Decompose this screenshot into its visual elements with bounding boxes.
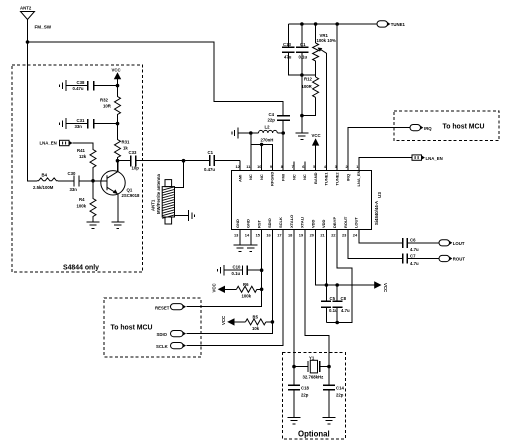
svg-text:DBYP: DBYP [332, 217, 337, 228]
region box: S4844 only [12, 65, 143, 272]
svg-text:RST: RST [256, 219, 261, 228]
capacitor C12 [296, 24, 309, 133]
wire pin 17 SCLK to connector [187, 230, 284, 346]
svg-text:Si4840/44-A: Si4840/44-A [374, 201, 379, 225]
svg-text:33n: 33n [75, 124, 83, 129]
wire pin 21 VDD [325, 230, 327, 286]
crystal Y1 [294, 355, 329, 379]
svg-text:TUNE1: TUNE1 [324, 172, 329, 186]
wire VR1 wiper to pin 4 TUNE1 [325, 53, 327, 170]
svg-text:VDD: VDD [321, 219, 326, 228]
svg-text:47u: 47u [284, 55, 292, 60]
ground (C14) [323, 418, 336, 424]
svg-text:C8: C8 [341, 296, 347, 301]
wire pin 14 GND [250, 230, 252, 246]
svg-text:ROUT: ROUT [453, 257, 466, 262]
node SDIO/R5 [271, 320, 275, 324]
svg-text:24: 24 [353, 233, 358, 238]
svg-text:C31: C31 [77, 118, 85, 123]
potentiometer VR1 [313, 24, 336, 77]
svg-text:15: 15 [256, 233, 261, 238]
svg-text:To host MCU: To host MCU [111, 325, 153, 332]
svg-text:MW/Ferrite antenna: MW/Ferrite antenna [156, 174, 161, 214]
ground (pin 14) [244, 245, 257, 251]
resistor R4 [77, 197, 97, 219]
capacitor C8 [332, 285, 350, 323]
power VCC (supply, right arrow) [374, 281, 388, 292]
svg-text:XTALI: XTALI [300, 217, 305, 228]
wire pin 24 LOUT to C6 [359, 230, 403, 243]
resistor R12 [302, 77, 319, 116]
svg-text:C18: C18 [301, 386, 309, 391]
capacitor C33 [118, 150, 210, 170]
svg-text:LNA_EN: LNA_EN [40, 140, 57, 145]
svg-text:GND: GND [246, 219, 251, 228]
node RFGND net [249, 131, 253, 135]
node tune rail / TUNE2 [335, 22, 339, 26]
ferrite bead B4 [33, 173, 74, 191]
wire pin 20 VDD to VCC rail [316, 230, 375, 286]
svg-text:14: 14 [245, 233, 250, 238]
svg-text:C30: C30 [68, 171, 76, 176]
resistor R32 [100, 95, 121, 117]
region box: Optional [283, 353, 346, 440]
region box: To host MCU (bottom) [104, 298, 201, 357]
node antenna tap [182, 159, 186, 163]
node caps return [335, 321, 339, 325]
svg-text:RESET: RESET [155, 305, 170, 310]
svg-text:0.47u: 0.47u [204, 167, 215, 172]
svg-text:FM_SW: FM_SW [35, 25, 52, 30]
svg-text:IRQ: IRQ [345, 174, 350, 181]
svg-text:NC: NC [302, 174, 307, 180]
capacitor C5 [321, 285, 338, 323]
connector TUNE1 [377, 21, 405, 27]
wire pin 13 GND [239, 230, 241, 246]
ground (antenna, right-pointing) [189, 210, 195, 221]
svg-text:22p: 22p [268, 118, 276, 123]
svg-text:10R: 10R [103, 104, 112, 109]
IC U1 Si4840/44-A body [232, 171, 383, 230]
connector SDIO [157, 331, 187, 338]
svg-text:VCC: VCC [383, 283, 388, 292]
svg-text:20: 20 [310, 233, 314, 238]
svg-text:Y1: Y1 [309, 355, 315, 360]
connector IRQ [410, 125, 432, 131]
connector RESET [155, 304, 186, 311]
wire R31 to collector [117, 158, 119, 173]
svg-text:SDIO: SDIO [267, 218, 272, 228]
svg-text:R12: R12 [304, 77, 312, 82]
svg-text:23: 23 [342, 233, 347, 238]
wire TUNE rail [289, 23, 377, 25]
connector ROUT [439, 255, 465, 261]
svg-text:C6: C6 [410, 238, 416, 243]
connector LOUT [439, 240, 465, 246]
svg-text:100k 10%: 100k 10% [317, 38, 337, 43]
svg-text:0.1u: 0.1u [329, 308, 338, 313]
connector LNA_EN (right) [412, 155, 443, 161]
IC bottom pin numbers [234, 233, 358, 238]
svg-text:To host MCU: To host MCU [443, 124, 485, 131]
ground (under R4) [87, 222, 100, 228]
svg-text:NC: NC [259, 174, 264, 180]
svg-text:4.7u: 4.7u [341, 308, 350, 313]
capacitor C30 [68, 171, 94, 192]
wire pin 19 XTALI to crystal [305, 230, 329, 367]
svg-text:L2: L2 [265, 125, 271, 130]
wire FM_SW to FMI [28, 42, 284, 116]
svg-text:C10: C10 [233, 265, 241, 270]
svg-text:LOUT: LOUT [354, 217, 359, 228]
svg-text:4.7u: 4.7u [410, 247, 419, 252]
node collector/C33 [116, 159, 120, 163]
svg-text:S4844 only: S4844 only [63, 265, 99, 272]
IC bottom pin names [235, 215, 359, 228]
ground (under Q1 emitter) [111, 222, 124, 228]
svg-text:SDIO: SDIO [157, 332, 168, 337]
svg-text:270nH: 270nH [261, 138, 274, 143]
wire antenna tap [175, 161, 184, 188]
wire C1 to pin 12 AMI [239, 161, 241, 171]
ground (tune network) [295, 133, 308, 139]
ground (pin 13) [234, 245, 247, 251]
resistor R5 [246, 314, 273, 331]
svg-text:SCLK: SCLK [278, 217, 283, 228]
wire ANT2 down to B4 [28, 42, 38, 181]
svg-text:C38: C38 [77, 80, 85, 85]
svg-text:ROUT: ROUT [343, 216, 348, 228]
svg-text:10: 10 [257, 164, 261, 169]
svg-text:R31: R31 [122, 140, 130, 145]
node base [91, 179, 95, 183]
svg-text:IRQ: IRQ [424, 126, 432, 131]
resistor R41 [77, 148, 96, 170]
inductor L2 270nH [259, 125, 284, 143]
svg-text:0.1u: 0.1u [299, 55, 308, 60]
node FM_SW junction [26, 40, 30, 44]
svg-text:C33: C33 [129, 150, 137, 155]
wire LNA_EN to host [359, 158, 412, 171]
wire pin 22 DBYP jog [326, 230, 352, 323]
svg-text:B4: B4 [42, 173, 48, 178]
svg-text:LNA_EN: LNA_EN [356, 170, 361, 186]
wire TUNE2 rail to pin 3 [336, 24, 338, 171]
svg-text:10p: 10p [132, 165, 140, 170]
svg-text:U3: U3 [377, 192, 382, 198]
power VCC (BAND pin) [312, 133, 321, 171]
svg-text:17: 17 [277, 233, 281, 238]
svg-text:33n: 33n [70, 187, 78, 192]
svg-text:BAND: BAND [313, 172, 318, 184]
svg-text:12k: 12k [79, 154, 87, 159]
svg-text:VCC: VCC [112, 68, 121, 73]
capacitor C38 [60, 80, 118, 91]
node R12 bottom return [300, 114, 304, 118]
svg-text:R4: R4 [79, 197, 85, 202]
connector SCLK [156, 343, 186, 350]
wire R41 to base node [92, 170, 94, 197]
power VCC (top left) [112, 68, 122, 95]
node VCC/C38 [116, 84, 120, 88]
svg-text:VCC: VCC [221, 316, 226, 325]
svg-text:TUNE2: TUNE2 [335, 172, 340, 186]
svg-text:22p: 22p [336, 393, 344, 398]
svg-text:NC: NC [291, 174, 296, 180]
capacitor C6 [403, 238, 439, 253]
svg-text:C13: C13 [283, 42, 291, 47]
node caps bottom [300, 73, 304, 77]
svg-text:C14: C14 [336, 386, 344, 391]
ground (C18) [288, 418, 301, 424]
wire R32 to R31 [117, 117, 119, 138]
svg-text:0.1u: 0.1u [232, 271, 241, 276]
svg-text:NC: NC [248, 174, 253, 180]
svg-text:0.47u: 0.47u [73, 86, 84, 91]
node RST/C10 [260, 268, 264, 272]
antenna ANT2 [20, 6, 35, 43]
svg-text:VCC: VCC [212, 283, 217, 292]
svg-text:R6: R6 [243, 282, 249, 287]
svg-text:100k: 100k [242, 293, 252, 298]
capacitor C4 [268, 112, 291, 133]
node RST/R6 [260, 288, 264, 292]
svg-text:C1: C1 [208, 150, 214, 155]
svg-text:4.7u: 4.7u [410, 261, 419, 266]
svg-text:2.5k/100M: 2.5k/100M [33, 185, 54, 190]
svg-text:AMI: AMI [237, 175, 242, 182]
IC top pin numbers [236, 164, 360, 169]
transistor Q1 [93, 161, 140, 222]
svg-text:VDD: VDD [310, 219, 315, 228]
svg-text:C1: C1 [300, 42, 306, 47]
svg-text:C5: C5 [330, 296, 336, 301]
svg-text:TUNE1: TUNE1 [391, 22, 406, 27]
antenna ANT1 MW/Ferrite antenna [151, 174, 189, 224]
svg-text:C4: C4 [269, 112, 275, 117]
svg-text:16: 16 [266, 233, 271, 238]
power VCC (R6 pull-up) [212, 283, 237, 293]
wire pin 23 ROUT to C7 [348, 230, 403, 259]
svg-text:7: 7 [292, 164, 294, 169]
svg-text:18: 18 [288, 233, 293, 238]
capacitor C1 [204, 150, 240, 172]
region box: To host MCU (IRQ) [394, 111, 499, 141]
node FMI/L2 [281, 131, 285, 135]
wire FMI to pin 8 [282, 133, 284, 171]
svg-text:22: 22 [331, 233, 336, 238]
wire IRQ to host [348, 128, 410, 171]
IC top pin names [237, 170, 361, 186]
resistor R6 [237, 282, 262, 299]
svg-text:R41: R41 [77, 148, 85, 153]
svg-text:19: 19 [299, 233, 304, 238]
svg-text:XTALO: XTALO [289, 215, 294, 228]
wire caps bottom to R12 [302, 74, 316, 76]
svg-text:32.768kHz: 32.768kHz [303, 374, 324, 379]
capacitor C14 [323, 367, 344, 418]
svg-text:R5: R5 [253, 314, 259, 319]
svg-text:FMI: FMI [281, 174, 286, 181]
svg-text:SCLK: SCLK [156, 344, 169, 349]
wire pin 15 RST to RESET [187, 230, 262, 307]
svg-text:R32: R32 [100, 98, 108, 103]
svg-text:2SC9018: 2SC9018 [122, 193, 141, 198]
power VCC (R5 pull-up) [221, 316, 246, 326]
svg-text:LOUT: LOUT [453, 241, 465, 246]
svg-text:RFGND: RFGND [270, 172, 275, 186]
svg-text:VCC: VCC [312, 133, 321, 138]
node R32/C31 [116, 122, 120, 126]
svg-text:Optional: Optional [298, 430, 330, 439]
svg-text:21: 21 [320, 233, 325, 238]
node crystal left [292, 365, 296, 369]
node crystal right [327, 365, 331, 369]
svg-text:100k: 100k [77, 204, 87, 209]
IC top pin stubs (NC pins 7 6) [294, 162, 305, 171]
ground (RFGND, left-pointing) [232, 128, 259, 139]
capacitor C18 [288, 367, 309, 418]
svg-text:Q1: Q1 [127, 188, 133, 193]
capacitor C31 [60, 118, 118, 129]
capacitor C10 [217, 265, 261, 277]
svg-text:LNA_EN: LNA_EN [426, 156, 443, 161]
resistor R31 [115, 138, 130, 160]
svg-text:13: 13 [234, 233, 239, 238]
svg-text:GND: GND [235, 219, 240, 228]
svg-text:10k: 10k [252, 326, 260, 331]
capacitor C7 [403, 253, 439, 266]
wire R4 to ground [92, 219, 94, 223]
svg-text:ANT1: ANT1 [151, 199, 156, 211]
node VDD rail / C8 [335, 283, 339, 287]
svg-text:22p: 22p [301, 393, 309, 398]
wire pin 16 SDIO to connector [187, 230, 273, 334]
connector LNA_EN (left) [40, 140, 94, 147]
node tune rail / C12 [300, 22, 304, 26]
svg-text:100R: 100R [302, 84, 313, 89]
wire RFGND net to pins 11 10 9 [251, 133, 273, 171]
capacitor C13 [282, 24, 302, 75]
wire pin 18 XTALO to crystal [293, 230, 295, 367]
node VDD rail / C5 [325, 283, 329, 287]
svg-text:ANT2: ANT2 [20, 6, 32, 11]
svg-text:C7: C7 [410, 253, 416, 258]
node tune rail / VR1 [314, 22, 318, 26]
